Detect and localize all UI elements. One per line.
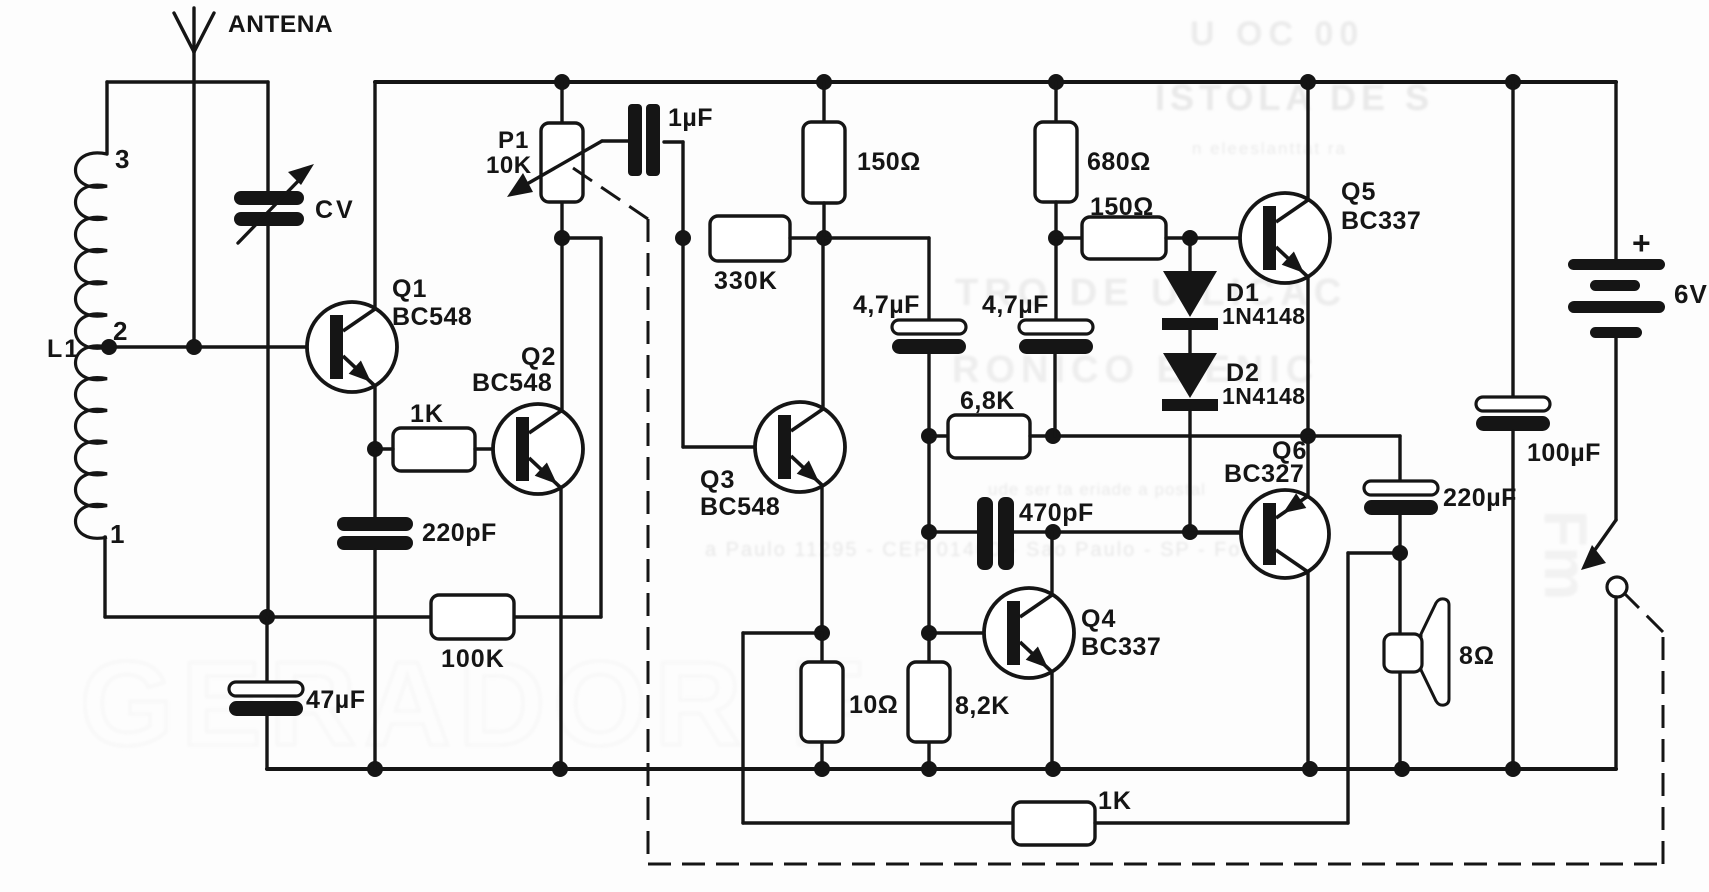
svg-text:1µF: 1µF — [668, 104, 713, 132]
transistor Q3 BC548 — [755, 402, 845, 492]
diode D1 1N4148 — [1162, 271, 1218, 330]
resistor R 330K — [710, 216, 790, 261]
wire Q5 collector to rail — [1306, 82, 1309, 200]
svg-text:a Paulo 11295 - CEP 01400 -: a Paulo 11295 - CEP 01400 - Sao Paulo - … — [705, 539, 1291, 561]
wire P1 bottom jog to 100K node — [562, 236, 601, 239]
wire 4.7uF b bottom — [1053, 354, 1056, 436]
capacitor C 4.7uF a — [892, 320, 966, 354]
svg-text:10K: 10K — [486, 152, 532, 179]
capacitor C 4.7uF b — [1019, 320, 1093, 354]
junction Q1 emitter / 1K — [367, 441, 383, 457]
svg-text:1: 1 — [110, 519, 124, 549]
wire 470pF right to Q6 base row — [1014, 530, 1241, 533]
svg-text:BC548: BC548 — [392, 303, 472, 331]
svg-text:6,8K: 6,8K — [960, 387, 1015, 415]
junction ground rail spk — [1394, 761, 1410, 777]
antenna — [174, 8, 214, 52]
resistor R 8.2K — [908, 662, 950, 742]
junction 6.8K right / Q4 collector column — [1045, 428, 1061, 444]
svg-text:BC548: BC548 — [700, 493, 780, 521]
resistor R 680 ohm — [1035, 122, 1077, 202]
battery B1 6V — [1568, 259, 1665, 338]
junction Q3 emitter / 10R — [814, 625, 830, 641]
wire 680R top — [1054, 82, 1057, 122]
capacitor C 1uF — [628, 104, 660, 176]
svg-text:BC327: BC327 — [1224, 460, 1304, 488]
wire 220uF bottom — [1398, 515, 1401, 553]
inductor L1 — [76, 153, 108, 538]
wire P1 top — [560, 82, 563, 123]
svg-text:6V: 6V — [1674, 279, 1708, 309]
capacitor CV — [234, 164, 314, 243]
wire Q5 emitter down — [1306, 277, 1309, 436]
junction top rail P1 — [554, 74, 570, 90]
svg-text:47µF: 47µF — [306, 686, 365, 714]
wire 470pF left stub — [929, 530, 977, 533]
wire 10R top — [820, 633, 823, 662]
wire Q1 emitter down — [373, 386, 376, 449]
wire rail to battery — [1614, 82, 1617, 259]
junction 470pF right / Q4 collector — [1045, 524, 1061, 540]
wire bias column down — [927, 436, 930, 769]
svg-text:10Ω: 10Ω — [849, 691, 898, 719]
wire Q3 emitter jog to feedback row — [743, 633, 1013, 823]
wire 220pF to ground rail — [373, 550, 376, 769]
wire 10R bottom — [820, 742, 823, 769]
wire Q6 collector down — [1306, 572, 1309, 769]
svg-text:1N4148: 1N4148 — [1222, 383, 1306, 409]
svg-text:4,7µF: 4,7µF — [853, 291, 920, 319]
junction top rail 100uF — [1505, 74, 1521, 90]
svg-text:P1: P1 — [498, 127, 529, 154]
wire Q4 base — [929, 631, 984, 634]
resistor R 150 ohm — [803, 122, 845, 203]
dashed link P1 to switch — [573, 168, 1663, 864]
wire bottom ground rail — [267, 767, 1616, 771]
wire 680R bottom — [1054, 202, 1057, 238]
wire 100uF bottom — [1511, 431, 1514, 769]
svg-text:Q4: Q4 — [1081, 605, 1116, 633]
svg-text:Q2: Q2 — [521, 343, 556, 371]
wire 4.7uF b top — [1054, 238, 1057, 320]
svg-text:1K: 1K — [1098, 787, 1132, 815]
resistor R 10 ohm — [801, 662, 843, 742]
junction ground rail Q2e — [552, 761, 568, 777]
wire 6.8K right to Q5/Q6 node — [1030, 434, 1308, 437]
wire Q3 base from 330K node — [683, 445, 755, 448]
resistor R 150 ohm b — [1082, 217, 1166, 259]
wire Q4 collector up — [1050, 532, 1053, 595]
transistor Q6 BC327 — [1241, 490, 1329, 578]
svg-text:150Ω: 150Ω — [1090, 193, 1154, 221]
wire battery to switch — [1614, 338, 1617, 520]
svg-text:470pF: 470pF — [1019, 499, 1094, 527]
svg-text:1N4148: 1N4148 — [1222, 303, 1306, 329]
junction 6.8K left — [921, 428, 937, 444]
junction 330K right / Q3 collector — [816, 230, 832, 246]
transistor Q4 BC337 — [984, 588, 1074, 678]
wire Q4 emitter down — [1050, 672, 1053, 769]
wire antenna to L1 tap 2 — [192, 52, 195, 347]
junction 470pF left — [921, 524, 937, 540]
wire Q2 emitter to ground — [559, 488, 562, 769]
junction 680R bottom — [1048, 230, 1064, 246]
wire D2 to Q6 base row — [1188, 411, 1191, 532]
junction CV/47uF node — [259, 609, 275, 625]
wire Q3 collector up — [821, 238, 824, 409]
capacitor C 100uF — [1476, 397, 1550, 431]
junction ground rail 10R — [814, 761, 830, 777]
wire Q1 collector to rail — [373, 82, 376, 309]
wire 1K left stub — [375, 447, 393, 450]
wire L1 tap 2 to Q1 base — [107, 345, 330, 348]
wire L1 bottom (tap 1) — [105, 238, 601, 617]
svg-text:Q1: Q1 — [392, 275, 427, 303]
wire feedback row right — [1095, 553, 1400, 823]
svg-text:ANTENA: ANTENA — [228, 11, 333, 38]
svg-text:Q3: Q3 — [700, 466, 735, 494]
wire L1 top to CV — [107, 82, 268, 154]
svg-text:n eleeslanttat ra: n eleeslanttat ra — [1192, 139, 1347, 158]
wire Q6 base stub — [1190, 531, 1241, 534]
resistor R 1K feedback — [1013, 802, 1095, 845]
wire to 47uF — [265, 617, 268, 682]
switch contact — [1607, 577, 1627, 597]
junction ground rail 8K2 — [921, 761, 937, 777]
svg-text:8Ω: 8Ω — [1459, 642, 1495, 670]
svg-text:2: 2 — [113, 316, 127, 346]
P1 wiper arrow — [507, 141, 630, 197]
junction antenna/base — [186, 339, 202, 355]
svg-text:220µF: 220µF — [1443, 484, 1517, 512]
svg-text:150Ω: 150Ω — [857, 148, 921, 176]
svg-text:L1: L1 — [47, 335, 80, 363]
junction ground rail 220pF — [367, 761, 383, 777]
wire Q2 collector to P1 — [560, 202, 563, 411]
junction top rail Q5 — [1300, 74, 1316, 90]
svg-text:1K: 1K — [410, 400, 444, 428]
wire 47uF to ground rail — [265, 716, 268, 769]
svg-text:100K: 100K — [441, 645, 505, 673]
svg-text:U OC 00: U OC 00 — [1190, 15, 1364, 53]
junction 330K left — [675, 230, 691, 246]
wire node to 4.7uF #1 — [824, 238, 929, 320]
svg-text:BC337: BC337 — [1341, 207, 1421, 235]
wire 150R b stub — [1056, 236, 1082, 239]
junction Q5 emitter / Q6 emitter / 6.8K — [1300, 428, 1316, 444]
junction top rail 150R — [816, 74, 832, 90]
wire D1 to D2 — [1188, 330, 1191, 353]
svg-text:ude ser ta eriade a postal: ude ser ta eriade a postal — [988, 480, 1206, 499]
junction tap 2 — [101, 339, 117, 355]
wire 1uF right plate down to 330K node — [664, 142, 683, 447]
transistor Q1 BC548 — [307, 302, 397, 392]
resistor R 6.8K — [948, 415, 1030, 458]
wire 330K to node — [790, 236, 824, 239]
wire CV bottom — [266, 226, 269, 617]
resistor P1 10K — [541, 123, 583, 202]
svg-text:330K: 330K — [714, 267, 778, 295]
capacitor C 220uF — [1364, 481, 1438, 515]
switch S1 blade — [1581, 520, 1616, 570]
junction top rail 680R — [1048, 74, 1064, 90]
resistor R 100K — [431, 595, 514, 639]
wire Q6 emitter up — [1306, 436, 1309, 497]
svg-text:3: 3 — [115, 144, 129, 174]
wire 100uF top — [1511, 82, 1514, 397]
transistor Q5 BC337 — [1240, 193, 1330, 283]
wire speaker column — [1398, 553, 1401, 769]
junction speaker node — [1392, 545, 1408, 561]
ghost bleed-through text — [80, 15, 1599, 771]
svg-text:220pF: 220pF — [422, 519, 497, 547]
svg-text:Q5: Q5 — [1341, 178, 1376, 206]
transistor Q2 BC548 — [493, 404, 583, 494]
wire 6.8K stub — [929, 434, 948, 437]
wire 150R top — [822, 82, 825, 122]
wire top supply rail — [375, 80, 1616, 84]
svg-text:BC337: BC337 — [1081, 633, 1161, 661]
wire 1K to Q2 base — [475, 447, 493, 450]
junction P1 bottom — [554, 230, 570, 246]
junction diode column / Q6 base — [1182, 524, 1198, 540]
wire output node to 220uF — [1308, 434, 1400, 437]
wire Q1 emitter to 220pF — [373, 449, 376, 517]
capacitor C 47uF — [229, 682, 303, 716]
svg-text:100µF: 100µF — [1527, 439, 1601, 467]
wire 150R b to Q5 base — [1166, 236, 1241, 239]
wire CV top — [266, 82, 269, 191]
wire to D1 — [1188, 238, 1191, 271]
junction ground rail Q6c — [1302, 761, 1318, 777]
junction Q4 base — [921, 625, 937, 641]
svg-text:+: + — [1632, 225, 1651, 261]
junction Q5 base / diode column — [1182, 230, 1198, 246]
capacitor 220pF — [337, 517, 413, 550]
junction ground rail 100uF — [1505, 761, 1521, 777]
wire 150R bottom to node — [822, 203, 825, 238]
svg-text:4,7µF: 4,7µF — [982, 291, 1049, 319]
junction ground rail Q4e — [1045, 761, 1061, 777]
wire Q3 emitter down — [820, 486, 823, 633]
diode D2 1N4148 — [1162, 353, 1218, 411]
capacitor 470pF — [977, 497, 1014, 570]
resistor R 1K — [393, 428, 475, 471]
svg-text:CV: CV — [315, 196, 356, 224]
svg-text:680Ω: 680Ω — [1087, 148, 1151, 176]
svg-text:8,2K: 8,2K — [955, 692, 1010, 720]
speaker 8 ohm — [1384, 599, 1449, 705]
svg-text:BC548: BC548 — [472, 369, 552, 397]
wire switch to ground rail — [1614, 597, 1617, 769]
wire 4.7uF a bottom — [927, 354, 930, 436]
